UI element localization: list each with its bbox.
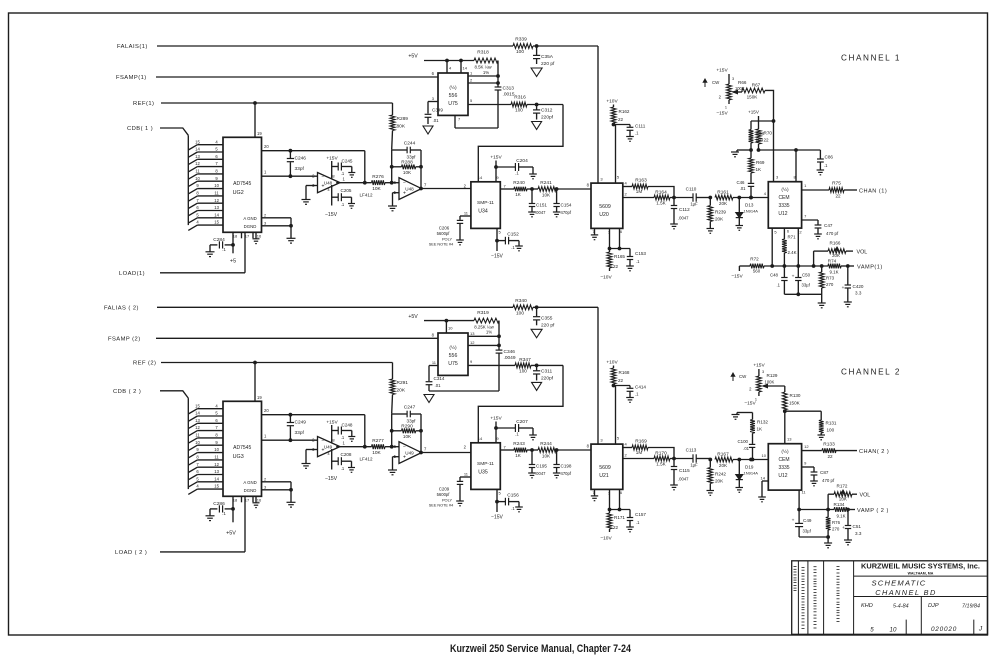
svg-text:.1: .1 [341,466,345,471]
svg-text:5609: 5609 [599,204,611,210]
svg-text:SMP-11: SMP-11 [477,200,494,206]
svg-text:220 pf: 220 pf [541,322,555,328]
ground [626,398,634,403]
resistor R167 20K [715,452,733,469]
svg-text:020020: 020020 [931,626,957,633]
svg-text:6: 6 [215,154,218,159]
svg-text:1M: 1M [636,450,643,455]
svg-text:20K: 20K [715,217,724,222]
title CHANNEL 1 [841,54,901,63]
svg-text:J: J [978,626,983,633]
svg-text:5600pf: 5600pf [437,492,451,497]
svg-text:12: 12 [214,198,219,203]
svg-text:9: 9 [470,359,473,364]
title block row 2 [854,596,988,598]
svg-text:LF412: LF412 [360,457,373,462]
svg-text:C195: C195 [536,464,547,469]
capacitor C195 .0047 [529,450,548,476]
title block column 1 [797,561,799,635]
svg-text:4: 4 [764,191,767,196]
svg-text:R72: R72 [750,257,759,262]
net FALAIS(2) label [104,306,139,312]
5609 bottom pins [592,228,630,250]
CEM pin 14 ground [758,476,768,502]
ground [348,468,355,473]
wire SMP out [500,449,514,451]
svg-text:C110: C110 [686,187,697,192]
svg-text:6: 6 [215,418,218,423]
svg-text:REF (2): REF (2) [133,361,156,367]
svg-text:+10V: +10V [606,360,618,366]
svg-text:FSAMP (2): FSAMP (2) [108,337,141,343]
svg-text:12: 12 [804,444,809,449]
wire op-amp +in to ground [306,450,318,464]
svg-text:14: 14 [463,66,468,71]
resistor R288 10K [392,160,421,175]
svg-text:−15V: −15V [491,515,503,521]
svg-text:11: 11 [214,455,219,460]
net FALAIS(1) label [117,44,148,50]
svg-text:10: 10 [890,627,897,634]
svg-text:13: 13 [214,469,219,474]
ground [626,527,634,532]
net REF(1) label [133,101,154,107]
CEM bottom pins 5 6 2 [772,228,802,266]
556 pin 5 output [468,98,511,105]
wire R70 to CEM pin 8 [759,149,821,182]
ground [515,246,523,251]
svg-text:R76: R76 [832,520,841,525]
wire FSAMP(2) [156,337,438,339]
svg-text:7: 7 [504,444,507,449]
svg-text:(½): (½) [449,84,457,91]
svg-text:−: − [322,438,325,444]
svg-text:AD7545: AD7545 [233,445,251,451]
svg-text:6: 6 [432,71,435,76]
wire feedback right [420,150,423,190]
svg-text:C346: C346 [504,349,516,355]
svg-text:−10V: −10V [600,275,612,281]
svg-text:C112: C112 [679,207,690,212]
wire R67 to CEM pin 3 [765,90,779,181]
svg-text:C420: C420 [853,284,864,289]
svg-text:9.1K: 9.1K [829,270,838,275]
vca CEM 3335 U12 [762,444,802,490]
svg-text:6: 6 [620,229,623,234]
svg-text:UG3: UG3 [233,454,244,460]
svg-text:9: 9 [496,175,499,180]
capacitor C35A [533,46,555,67]
svg-text:R339: R339 [515,37,527,43]
ground [626,266,634,271]
svg-text:R74: R74 [828,258,837,263]
svg-text:14: 14 [478,436,483,441]
svg-text:7: 7 [804,214,807,219]
svg-text:5: 5 [617,436,620,441]
svg-text:U12: U12 [778,473,787,479]
wire VAMP rail [798,508,855,511]
svg-text:.0047: .0047 [678,216,689,221]
svg-text:5: 5 [470,98,473,103]
svg-text:8: 8 [332,438,335,443]
net FSAMP(1) label [116,75,147,81]
ground [348,173,355,178]
svg-text:33pf: 33pf [295,430,305,436]
svg-text:4: 4 [196,220,199,225]
ground [553,212,561,217]
wire timer out to SMP pin 14 [478,365,563,442]
svg-text:R75: R75 [832,181,841,187]
svg-text:FSAMP(1): FSAMP(1) [116,75,147,81]
timer (1/2) 556 U75 [438,73,468,115]
svg-text:C115: C115 [679,468,690,473]
ground [456,501,464,506]
svg-text:C414: C414 [635,385,646,390]
svg-text:3: 3 [264,220,267,225]
sample-hold SMP-11 U35 [464,436,507,490]
capacitor C151 .0047 [529,189,548,215]
svg-text:5: 5 [215,411,218,416]
svg-text:4: 4 [215,403,218,408]
svg-text:+15V: +15V [326,156,338,162]
resistor R75 22 (output) [802,181,857,199]
svg-text:6: 6 [787,229,790,234]
resistor R289 20K [390,103,408,149]
svg-text:.0015: .0015 [503,92,515,98]
wire REF to DAC pin 19 [255,363,262,402]
ground [515,507,523,512]
svg-text:470 pf: 470 pf [822,478,835,483]
svg-text:.1: .1 [635,392,639,397]
svg-text:R67: R67 [752,83,761,88]
capacitor C208 .1 [332,452,352,471]
capacitor C245 .1 [332,159,353,177]
svg-text:10K: 10K [372,450,381,456]
title block column mid [920,597,922,635]
ground (AGND) [287,502,296,507]
svg-text:22: 22 [827,454,833,459]
svg-text:9: 9 [496,436,499,441]
svg-text:C284: C284 [213,237,225,243]
resistor R164 1.5K [623,189,693,205]
svg-text:CHANNEL 2: CHANNEL 2 [841,368,901,377]
svg-text:C209: C209 [439,487,450,492]
svg-text:8: 8 [196,455,199,460]
556 pin 3 / capacitor C349 .01 [425,96,444,124]
wire to sample cap [531,364,563,367]
supply +10V / resistor R168 [606,360,630,385]
supply +15V (SMP) [490,155,502,182]
drawing title CHANNEL BD [875,588,937,597]
svg-text:R133: R133 [823,441,835,447]
svg-text:SEE NOTE #4: SEE NOTE #4 [429,504,453,508]
svg-text:R134: R134 [834,502,845,507]
svg-text:556: 556 [449,93,458,99]
svg-text:2: 2 [264,212,267,217]
svg-text:R131: R131 [826,421,837,426]
op-amp U48b [394,178,427,200]
svg-text:33µf: 33µf [802,283,811,288]
svg-text:3: 3 [776,175,779,180]
capacitor C355 [533,307,555,328]
resistor R133 22 (output) [802,441,857,459]
supply -15V (op-amp A) [325,449,338,482]
svg-text:(½): (½) [449,344,457,351]
svg-text:FALIAS ( 2): FALIAS ( 2) [104,306,139,312]
556 pin 4 [447,61,452,74]
capacitor C51 3.3 [842,510,862,541]
svg-text:1.5K: 1.5K [656,201,666,206]
svg-text:7: 7 [504,183,507,188]
svg-text:13: 13 [195,154,200,159]
ground (R132 top) [732,413,753,420]
svg-text:470 pf: 470 pf [826,231,839,236]
ground (5609 pin 7) [591,235,598,240]
wire timer out to SMP pin 14 [478,105,563,182]
resistor R340 [513,298,533,317]
ground [844,540,852,545]
svg-text:C247: C247 [404,405,416,411]
svg-text:.1: .1 [777,283,781,288]
ground [388,206,397,211]
svg-text:U48: U48 [405,186,414,191]
ground (open triangle) [532,382,542,390]
svg-text:C50: C50 [802,273,811,278]
wire to U21 pin 8 [556,444,591,451]
svg-text:100K: 100K [765,380,775,385]
ground (R68/R69 tap) [731,150,751,157]
svg-text:2: 2 [470,78,473,83]
capacitor C156 .1 / -15V [491,489,519,520]
svg-text:7: 7 [215,425,218,430]
svg-text:5: 5 [499,229,502,234]
wire CDB(2) [160,391,188,398]
svg-text:11: 11 [195,433,200,438]
vca CEM 3335 U12 [764,182,802,228]
svg-text:.1: .1 [824,163,828,168]
svg-text:556: 556 [449,353,458,359]
svg-text:1µF: 1µF [690,463,698,468]
capacitor C205 .1 [332,188,352,207]
ground [206,252,215,257]
wire AGND/DGND [262,212,293,238]
svg-text:5: 5 [774,230,777,235]
svg-text:R240: R240 [513,180,525,186]
svg-text:33pf: 33pf [407,154,417,159]
capacitor C286 .1 [210,496,234,516]
svg-text:R162: R162 [619,109,630,114]
svg-text:.0047: .0047 [535,471,546,476]
svg-text:U75: U75 [448,101,458,107]
svg-text:C204: C204 [516,158,528,164]
sample-hold SMP-11 U34 [464,175,507,229]
svg-text:2.4K: 2.4K [788,250,797,255]
ground [302,200,311,205]
svg-text:2: 2 [264,476,267,481]
svg-text:22: 22 [764,138,770,143]
svg-text:R319: R319 [477,310,489,316]
capacitor C157 .1 [627,510,647,528]
svg-text:33pf: 33pf [295,166,305,172]
resistor R68 100 [749,121,774,151]
ground [824,543,832,548]
ground [814,234,822,239]
svg-text:U34: U34 [478,208,488,214]
diode D19 1N914A [733,458,768,487]
DAC AD7545 UG2 [223,137,262,232]
capacitor C50 33uf [792,266,811,294]
svg-text:−15V: −15V [731,274,743,280]
svg-text:100: 100 [516,310,524,316]
label LF412 [360,193,373,198]
resistor R171 22 / -10V [600,510,625,542]
wire op-amp A out [336,446,371,448]
svg-text:.1: .1 [515,171,519,176]
title block frame [792,561,988,635]
svg-text:33pf: 33pf [407,418,417,423]
svg-text:2: 2 [464,183,467,188]
wire op-amp A out [336,182,371,184]
resistor R134 9.1K [834,502,848,519]
svg-text:LOAD(1): LOAD(1) [119,271,145,277]
svg-text:CHAN( 2 ): CHAN( 2 ) [859,449,889,455]
svg-text:150K: 150K [747,95,759,100]
net VAMP(2) label [857,508,889,514]
svg-text:C245: C245 [342,159,353,164]
svg-text:.1: .1 [222,247,226,252]
svg-text:C87: C87 [820,470,829,475]
svg-text:11: 11 [464,211,469,216]
supply +5V (556) [408,54,474,62]
svg-text:20: 20 [264,408,269,413]
svg-text:C286: C286 [213,501,225,507]
ground [529,174,537,179]
svg-text:2: 2 [799,230,802,235]
svg-text:270: 270 [832,527,840,532]
svg-text:R340: R340 [515,298,527,304]
svg-text:C86: C86 [825,155,834,160]
svg-text:R163: R163 [635,177,647,183]
switch 5609 U20 [591,175,623,229]
ground [456,240,464,245]
resistor R73 270 [819,266,834,303]
capacitor C311 220pf [533,365,554,381]
svg-text:3: 3 [732,77,734,81]
svg-text:4: 4 [625,442,628,447]
svg-text:+15V: +15V [490,416,502,422]
ground [626,137,634,142]
wire 556 pin 7 [455,115,498,128]
svg-text:DGND: DGND [244,224,257,229]
svg-text:.0049: .0049 [504,355,516,361]
resistor R76 270 [826,510,841,538]
svg-text:R167: R167 [717,452,729,458]
svg-text:VAMP ( 2 ): VAMP ( 2 ) [857,508,889,514]
wire CDB(1) [160,128,188,135]
svg-text:+5V: +5V [408,54,418,60]
svg-text:11: 11 [195,169,200,174]
resistor R319 [474,310,499,334]
capacitor C47 470pf [802,214,839,237]
svg-text:10K: 10K [403,170,412,175]
svg-text:R291: R291 [397,380,409,386]
svg-text:3: 3 [600,177,603,182]
ground [707,491,715,496]
svg-text:1: 1 [470,71,473,76]
svg-text:VOL: VOL [857,249,868,255]
svg-text:5: 5 [870,627,874,634]
resistor R74 9.1K [828,258,841,274]
company name [861,561,980,575]
wire AGND/DGND [262,476,293,502]
svg-text:14: 14 [214,476,219,481]
556 pin 8 (FSAMP in) [432,332,435,337]
title block column 3 [823,561,825,635]
svg-text:8: 8 [587,444,590,449]
svg-text:220 pf: 220 pf [541,61,555,67]
ground (open triangle) [424,395,434,403]
svg-text:C249: C249 [295,419,307,425]
svg-text:150K: 150K [789,401,801,406]
svg-text:CDB( 1 ): CDB( 1 ) [127,126,153,132]
wire op-amp +in to ground [306,186,318,200]
capacitor C313 .0015 [495,86,515,129]
svg-text:FALAIS(1): FALAIS(1) [117,44,148,50]
wire VAMP rail [739,265,854,271]
svg-text:10K: 10K [403,434,412,439]
wire LOAD(2) to DAC pin 17 [160,496,245,552]
resistor R347 100 [515,357,531,374]
diode D13 1N914A [733,196,768,225]
capacitor C48 .1 [770,266,788,294]
svg-text:100: 100 [516,49,524,55]
capacitor C112 .0047 [671,198,690,221]
svg-text:+: + [842,285,845,290]
svg-text:(½): (½) [781,448,789,455]
ground [348,437,355,442]
svg-text:15: 15 [214,484,219,489]
svg-text:C208: C208 [341,452,352,457]
svg-text:470pf: 470pf [561,210,572,215]
svg-text:C156: C156 [507,493,519,499]
title block column 2 [807,561,809,635]
capacitor C113 1uF [686,448,711,468]
ground (open triangle) [531,329,542,338]
svg-text:WALTHAM, MA: WALTHAM, MA [908,571,934,575]
supply +15V (SMP) [490,416,502,443]
svg-text:CHANNEL 1: CHANNEL 1 [841,54,901,63]
capacitor C46 .01 [736,173,754,199]
svg-text:−15V: −15V [491,254,503,260]
svg-text:C48: C48 [770,273,779,278]
svg-text:12: 12 [195,425,200,430]
svg-text:220pf: 220pf [541,375,554,381]
trimpot R66 100K [716,68,747,117]
svg-text:19: 19 [257,131,262,136]
svg-text:R288: R288 [401,160,413,166]
svg-text:CEM: CEM [778,457,789,463]
svg-text:−15V: −15V [744,401,756,407]
svg-text:.1: .1 [636,520,640,525]
svg-text:R66: R66 [738,80,747,85]
ground [818,303,826,308]
svg-text:.1: .1 [515,432,519,437]
svg-text:CW: CW [712,80,720,85]
capacitor C248 .1 [332,423,353,441]
svg-text:560: 560 [753,269,761,274]
svg-text:KURZWEIL MUSIC SYSTEMS, Inc.: KURZWEIL MUSIC SYSTEMS, Inc. [861,561,980,570]
svg-text:7: 7 [196,462,199,467]
